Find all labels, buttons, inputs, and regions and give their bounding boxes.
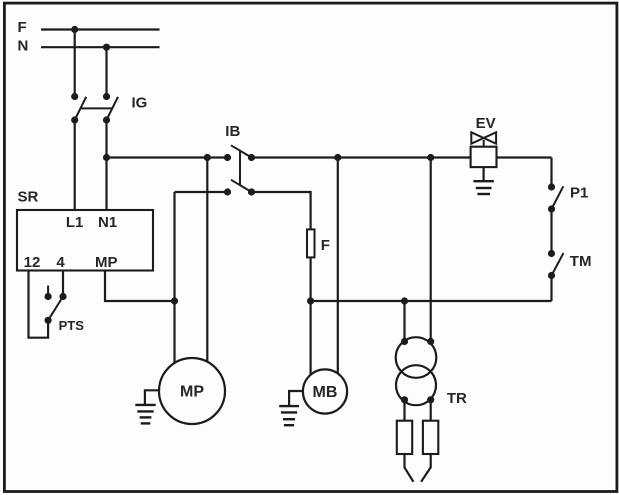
ground MB: [279, 391, 303, 425]
ground EV: [473, 167, 493, 194]
wire TR to left element: [403, 400, 405, 421]
switch TM: [548, 250, 564, 279]
electrode tip right: [421, 454, 431, 482]
svg-text:SR: SR: [18, 188, 39, 205]
wire to MB motor left: [310, 301, 312, 375]
switch PTS: [45, 286, 67, 324]
wire riser to MP motor right: [206, 158, 208, 363]
valve EV: [471, 132, 497, 167]
wire IG to SR L1: [74, 120, 76, 210]
relay box SR: [17, 210, 153, 271]
svg-text:4: 4: [56, 254, 65, 271]
wire riser to MP motor left: [173, 192, 175, 364]
electrode element right: [423, 421, 438, 454]
svg-text:MB: MB: [313, 384, 338, 401]
wire IG to SR N1: [105, 120, 107, 210]
electrode tip left: [405, 454, 414, 482]
motor MB: [303, 369, 347, 413]
junction on F bus: [71, 26, 78, 33]
svg-text:F: F: [321, 237, 330, 254]
svg-text:MP: MP: [180, 384, 204, 401]
switch IB: [224, 145, 255, 195]
wire SR pin 12 to PTS: [29, 271, 49, 338]
wire IB upper output to EV: [252, 156, 471, 158]
svg-text:N1: N1: [98, 214, 117, 231]
svg-text:EV: EV: [476, 115, 496, 132]
junction TR right riser node: [427, 154, 434, 161]
motor MP: [159, 358, 225, 424]
transformer TR: [396, 337, 437, 405]
svg-text:12: 12: [24, 254, 41, 271]
wire SR pin MP to node: [105, 271, 175, 302]
wire P1 to TM: [550, 209, 552, 254]
svg-text:N: N: [18, 38, 29, 55]
switch IG: [71, 93, 118, 124]
wire N drop to IG: [105, 47, 107, 96]
wire IB lower input: [175, 191, 228, 193]
wire riser to MB motor right: [337, 158, 339, 374]
junction node MP right riser: [204, 154, 211, 161]
wire TR left riser: [403, 301, 405, 342]
wire main bus to IB: [107, 156, 228, 158]
wire TR to right element: [430, 400, 432, 421]
wire F bus: [41, 28, 160, 30]
svg-text:PTS: PTS: [59, 318, 85, 333]
junction fuse node: [307, 297, 314, 304]
wire bottom bus: [311, 300, 552, 302]
junction node on N1 riser: [103, 154, 110, 161]
svg-text:F: F: [18, 19, 27, 36]
wire N bus: [41, 46, 160, 48]
switch P1: [548, 183, 563, 212]
wire fuse to bottom bus: [310, 257, 312, 301]
wire SR pin 4 to PTS: [62, 271, 64, 297]
wire IB lower output to fuse: [252, 192, 311, 229]
svg-text:P1: P1: [570, 184, 588, 201]
wire right corner down to P1: [550, 158, 552, 188]
svg-text:IG: IG: [132, 94, 148, 111]
svg-text:MP: MP: [95, 254, 118, 271]
wire TM to bottom bus: [550, 276, 552, 302]
svg-text:TM: TM: [570, 253, 592, 270]
junction MP node: [171, 297, 178, 304]
svg-text:TR: TR: [447, 390, 467, 407]
junction MB right riser node: [334, 154, 341, 161]
svg-text:L1: L1: [66, 214, 84, 231]
wire TR right riser: [430, 158, 432, 342]
junction on N bus: [103, 44, 110, 51]
ground MP: [135, 390, 159, 423]
wire EV to right corner: [497, 156, 552, 158]
svg-text:IB: IB: [225, 123, 240, 140]
junction TR left node: [401, 297, 408, 304]
fuse F: [307, 229, 315, 257]
wire F drop to IG: [74, 30, 76, 97]
electrode element left: [397, 421, 412, 454]
